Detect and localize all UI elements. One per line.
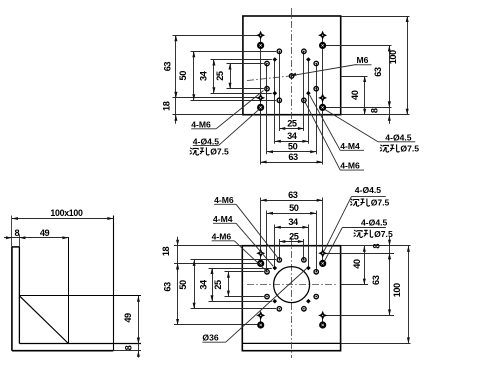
svg-text:49: 49 [40, 228, 50, 238]
svg-text:4-Ø4.5: 4-Ø4.5 [361, 218, 387, 228]
tapped hole M6 (top view) [302, 49, 306, 53]
tapped hole M6 (top view) [277, 98, 281, 102]
svg-text:50: 50 [289, 203, 299, 213]
dim 8 (vertical plate thickness) [4, 228, 68, 240]
svg-text:18: 18 [162, 101, 172, 111]
svg-text:Ø7.5: Ø7.5 [374, 229, 393, 239]
svg-text:4-M6: 4-M6 [212, 231, 232, 241]
dim 100 vertical right (top view) [388, 16, 409, 115]
side view of bracket (L-section with gusset) [4, 208, 141, 358]
svg-text:Ø36: Ø36 [202, 333, 218, 343]
dim 50 horizontal bottom (top view) [267, 142, 316, 154]
svg-text:34: 34 [287, 131, 298, 141]
leader 4-M6 to hole 2 [234, 241, 265, 270]
dim 25 vertical left (front view) [213, 272, 230, 297]
base plate edge line (front view) [242, 342, 340, 344]
top view of bracket base plate [162, 8, 420, 171]
svg-text:100: 100 [392, 283, 402, 297]
svg-text:Ø7.5: Ø7.5 [210, 147, 229, 157]
tapped hole M6 (top view) [265, 61, 269, 65]
tapped hole M6 (front view) [314, 294, 318, 298]
left extension above plate [11, 216, 13, 247]
leader 4-M6 to tapped hole [216, 91, 263, 129]
extension lines (front view right dims) [341, 245, 411, 247]
leader 4-Ø4.5 to counterbore hole right [325, 109, 379, 142]
tapped hole M4 (top view) [273, 91, 278, 96]
svg-text:40: 40 [350, 90, 360, 100]
svg-text:4-M4: 4-M4 [340, 141, 360, 151]
tapped hole M4 (top view) [306, 57, 311, 62]
label M6 (center hole) [356, 55, 372, 65]
dim 63 horizontal bottom (top view) [261, 152, 323, 164]
svg-text:8: 8 [370, 108, 380, 113]
svg-text:50: 50 [178, 71, 188, 81]
extension lines (front view left dims) [174, 245, 242, 247]
extension for 8 dim [19, 235, 21, 247]
svg-text:M6: M6 [357, 55, 369, 65]
gusset vertical edge / extension [68, 237, 70, 344]
svg-text:4-M4: 4-M4 [213, 214, 233, 224]
label 4-M6 (top view right) [340, 161, 364, 171]
counterbore hole far side (front view) [318, 249, 327, 258]
vertical plate right edge [18, 247, 20, 344]
svg-text:63: 63 [162, 62, 172, 72]
center hole M6 [289, 74, 293, 78]
svg-text:25: 25 [287, 118, 297, 128]
leader to counterbore (star) [324, 196, 352, 251]
dim 25 vertical left (top view) [215, 64, 232, 89]
counterbore hole 4-Ø4.5/Ø7.5 far side (top view) [318, 93, 327, 102]
svg-text:25: 25 [213, 280, 223, 290]
vertical centerline [291, 8, 293, 122]
tapped hole M6 (top view) [314, 87, 318, 91]
counterbore hole 4-Ø4.5/Ø7.5 (top view) [257, 42, 264, 49]
counterbore hole far side (front view) [318, 311, 327, 320]
label 4-M4 (top view right) [340, 141, 364, 151]
svg-text:34: 34 [288, 217, 299, 227]
tapped hole M6 (front view) [277, 307, 281, 311]
leader Ø36 through bore [226, 269, 307, 343]
svg-text:100x100: 100x100 [50, 208, 83, 218]
tapped hole M6 (top view) [314, 61, 318, 65]
svg-text:8: 8 [371, 244, 381, 249]
label Ø36 [202, 333, 225, 343]
tapped hole M4 (front view) [273, 266, 278, 271]
leader 4-M4 to M4 hole [310, 95, 341, 150]
svg-text:63: 63 [163, 282, 173, 292]
counterbore hole 4-Ø4.5/Ø7.5 (front view) [257, 260, 264, 267]
svg-text:25: 25 [289, 231, 299, 241]
dim 49 (gusset width) [40, 228, 50, 238]
tapped hole M6 (top view) [277, 49, 281, 53]
svg-text:Ø7.5: Ø7.5 [371, 198, 390, 208]
counterbore hole 4-Ø4.5/Ø7.5 far side (top view) [318, 31, 327, 40]
counterbore hole far side (front view) [256, 249, 265, 258]
svg-text:8: 8 [123, 345, 133, 350]
label 4-Ø4.5 沉孔Ø7.5 (front view right lower) [342, 218, 393, 239]
gusset top edge [19, 295, 141, 297]
label 4-Ø4.5 沉孔Ø7.5 (top view left) [190, 136, 229, 156]
svg-text:25: 25 [215, 71, 225, 81]
central bore Ø36 [274, 267, 310, 303]
svg-text:4-Ø4.5: 4-Ø4.5 [355, 185, 381, 195]
dim 50 vertical left (top view) [178, 51, 195, 100]
leader to counterbore (filled) [324, 228, 342, 262]
label 4-M4 (front view) [213, 214, 236, 224]
counterbore hole 4-Ø4.5/Ø7.5 (front view) [319, 321, 326, 328]
dim 34 horizontal top (front view) [275, 217, 309, 229]
vertical centerline (front view) [291, 238, 293, 358]
svg-text:Ø7.5: Ø7.5 [400, 144, 419, 154]
svg-text:34: 34 [199, 70, 209, 81]
svg-text:8: 8 [14, 228, 19, 238]
tapped hole M4 (front view) [306, 299, 311, 304]
base plate bottom edge [12, 350, 113, 352]
counterbore hole 4-Ø4.5/Ø7.5 (top view) [319, 104, 326, 111]
svg-text:100: 100 [388, 50, 398, 64]
svg-text:4-Ø4.5: 4-Ø4.5 [385, 133, 411, 143]
extension lines (top view right dims) [341, 16, 410, 18]
tapped hole M4 (top view) [306, 91, 311, 96]
dim 63 vertical left (front view) [163, 263, 179, 325]
counterbore hole 4-Ø4.5/Ø7.5 (front view) [257, 321, 264, 328]
tapped hole M6 (front view) [277, 258, 281, 262]
dim 63 horizontal top (front view) [261, 190, 323, 202]
dim 63 vertical left (top view) [162, 35, 177, 98]
tapped hole M4 (top view) [273, 57, 278, 62]
leader 4-M6 to M6 hole [305, 102, 340, 170]
svg-text:63: 63 [288, 152, 298, 162]
tapped hole M4 (front view) [273, 299, 278, 304]
dim 18 vertical left (front view) [161, 237, 179, 273]
label 4-M6 (front view, second) [212, 231, 235, 241]
label 4-M6 (front view, first) [214, 195, 236, 205]
tapped hole M6 (front view) [314, 270, 318, 274]
svg-text:4-M6: 4-M6 [214, 195, 234, 205]
svg-text:4-M6: 4-M6 [340, 161, 360, 171]
dim 34 vertical left (front view) [199, 268, 214, 301]
gusset diagonal [19, 296, 68, 344]
dim 25 horizontal top (front view) [279, 231, 304, 243]
tapped hole M6 (front view) [302, 258, 306, 262]
svg-text:18: 18 [161, 247, 171, 257]
tapped hole M6 (top view) [302, 98, 306, 102]
svg-text:4-Ø4.5: 4-Ø4.5 [193, 136, 219, 146]
dim 34 vertical left (top view) [199, 60, 216, 94]
vertical plate left edge [11, 247, 13, 351]
counterbore hole 4-Ø4.5/Ø7.5 far side (top view) [256, 93, 265, 102]
right edge / extension [113, 216, 115, 351]
tapped hole M4 (front view) [306, 266, 311, 271]
leader 4-M4 to hole [236, 223, 273, 266]
svg-text:63: 63 [373, 67, 383, 77]
arrowhead of M6 leader at center hole [290, 73, 296, 77]
leader M6 to center hole [295, 65, 357, 76]
svg-text:63: 63 [288, 190, 298, 200]
dim 49 (gusset height, right) [123, 296, 140, 344]
horizontal centerline (slightly tilted as in source) [247, 76, 292, 81]
dim 8 (base thickness, right) [123, 337, 140, 358]
tapped hole M6 (top view) [265, 87, 269, 91]
dim 63 vertical right (top view) [373, 45, 391, 107]
svg-text:50: 50 [288, 142, 298, 152]
tapped hole M6 (front view) [265, 294, 269, 298]
counterbore hole 4-Ø4.5/Ø7.5 (top view) [257, 104, 264, 111]
dim 50 vertical left (front view) [178, 260, 196, 309]
dim 8 vertical right (top view) [370, 98, 391, 123]
svg-text:40: 40 [352, 259, 362, 269]
dim 100 vertical right (front view) [392, 246, 410, 344]
leader 4-M6 to hole [236, 204, 278, 258]
plate outline (front view) [242, 246, 340, 351]
base plate top edge [19, 343, 141, 345]
front view of bracket [161, 185, 411, 358]
tapped hole M6 (front view) [302, 307, 306, 311]
dim 8 vertical right (front view) [371, 237, 391, 263]
extension lines (top view left dims) [173, 35, 258, 37]
leader 4-Ø4.5 to counterbore hole [218, 109, 259, 145]
dim 40 vertical right (front view) [352, 246, 366, 285]
svg-text:49: 49 [123, 313, 133, 323]
dim 18 vertical left (top view) [162, 89, 178, 124]
vertical plate top edge [12, 246, 20, 248]
horizontal centerline (front view) [247, 284, 337, 286]
dim 63 vertical right (front view) [371, 253, 391, 315]
svg-text:63: 63 [371, 275, 381, 285]
svg-text:50: 50 [178, 280, 188, 290]
label 4-Ø4.5 沉孔Ø7.5 (front view right upper) [350, 185, 389, 207]
extension lines (top view bottom dims) [260, 35, 262, 164]
dim 100x100 [12, 208, 113, 220]
tapped hole M6 (front view) [265, 270, 269, 274]
svg-text:34: 34 [199, 279, 209, 290]
dim 40 vertical right (top view) [350, 76, 366, 115]
counterbore hole far side (front view) [256, 311, 265, 320]
label 4-M6 (top view left) [191, 119, 216, 129]
counterbore hole 4-Ø4.5/Ø7.5 (front view) [319, 260, 326, 267]
plate outline (top view) [243, 16, 341, 115]
label 4-Ø4.5 沉孔Ø7.5 (top view right) [378, 133, 419, 154]
extension lines (front view top dims) [260, 198, 262, 264]
dim 50 horizontal top (front view) [267, 203, 316, 215]
dim 34 horizontal bottom (top view) [275, 131, 309, 143]
counterbore hole 4-Ø4.5/Ø7.5 (top view) [319, 42, 326, 49]
counterbore hole 4-Ø4.5/Ø7.5 far side (top view) [256, 31, 265, 40]
svg-text:4-M6: 4-M6 [191, 119, 211, 129]
dim 25 horizontal bottom (top view) [279, 118, 304, 130]
